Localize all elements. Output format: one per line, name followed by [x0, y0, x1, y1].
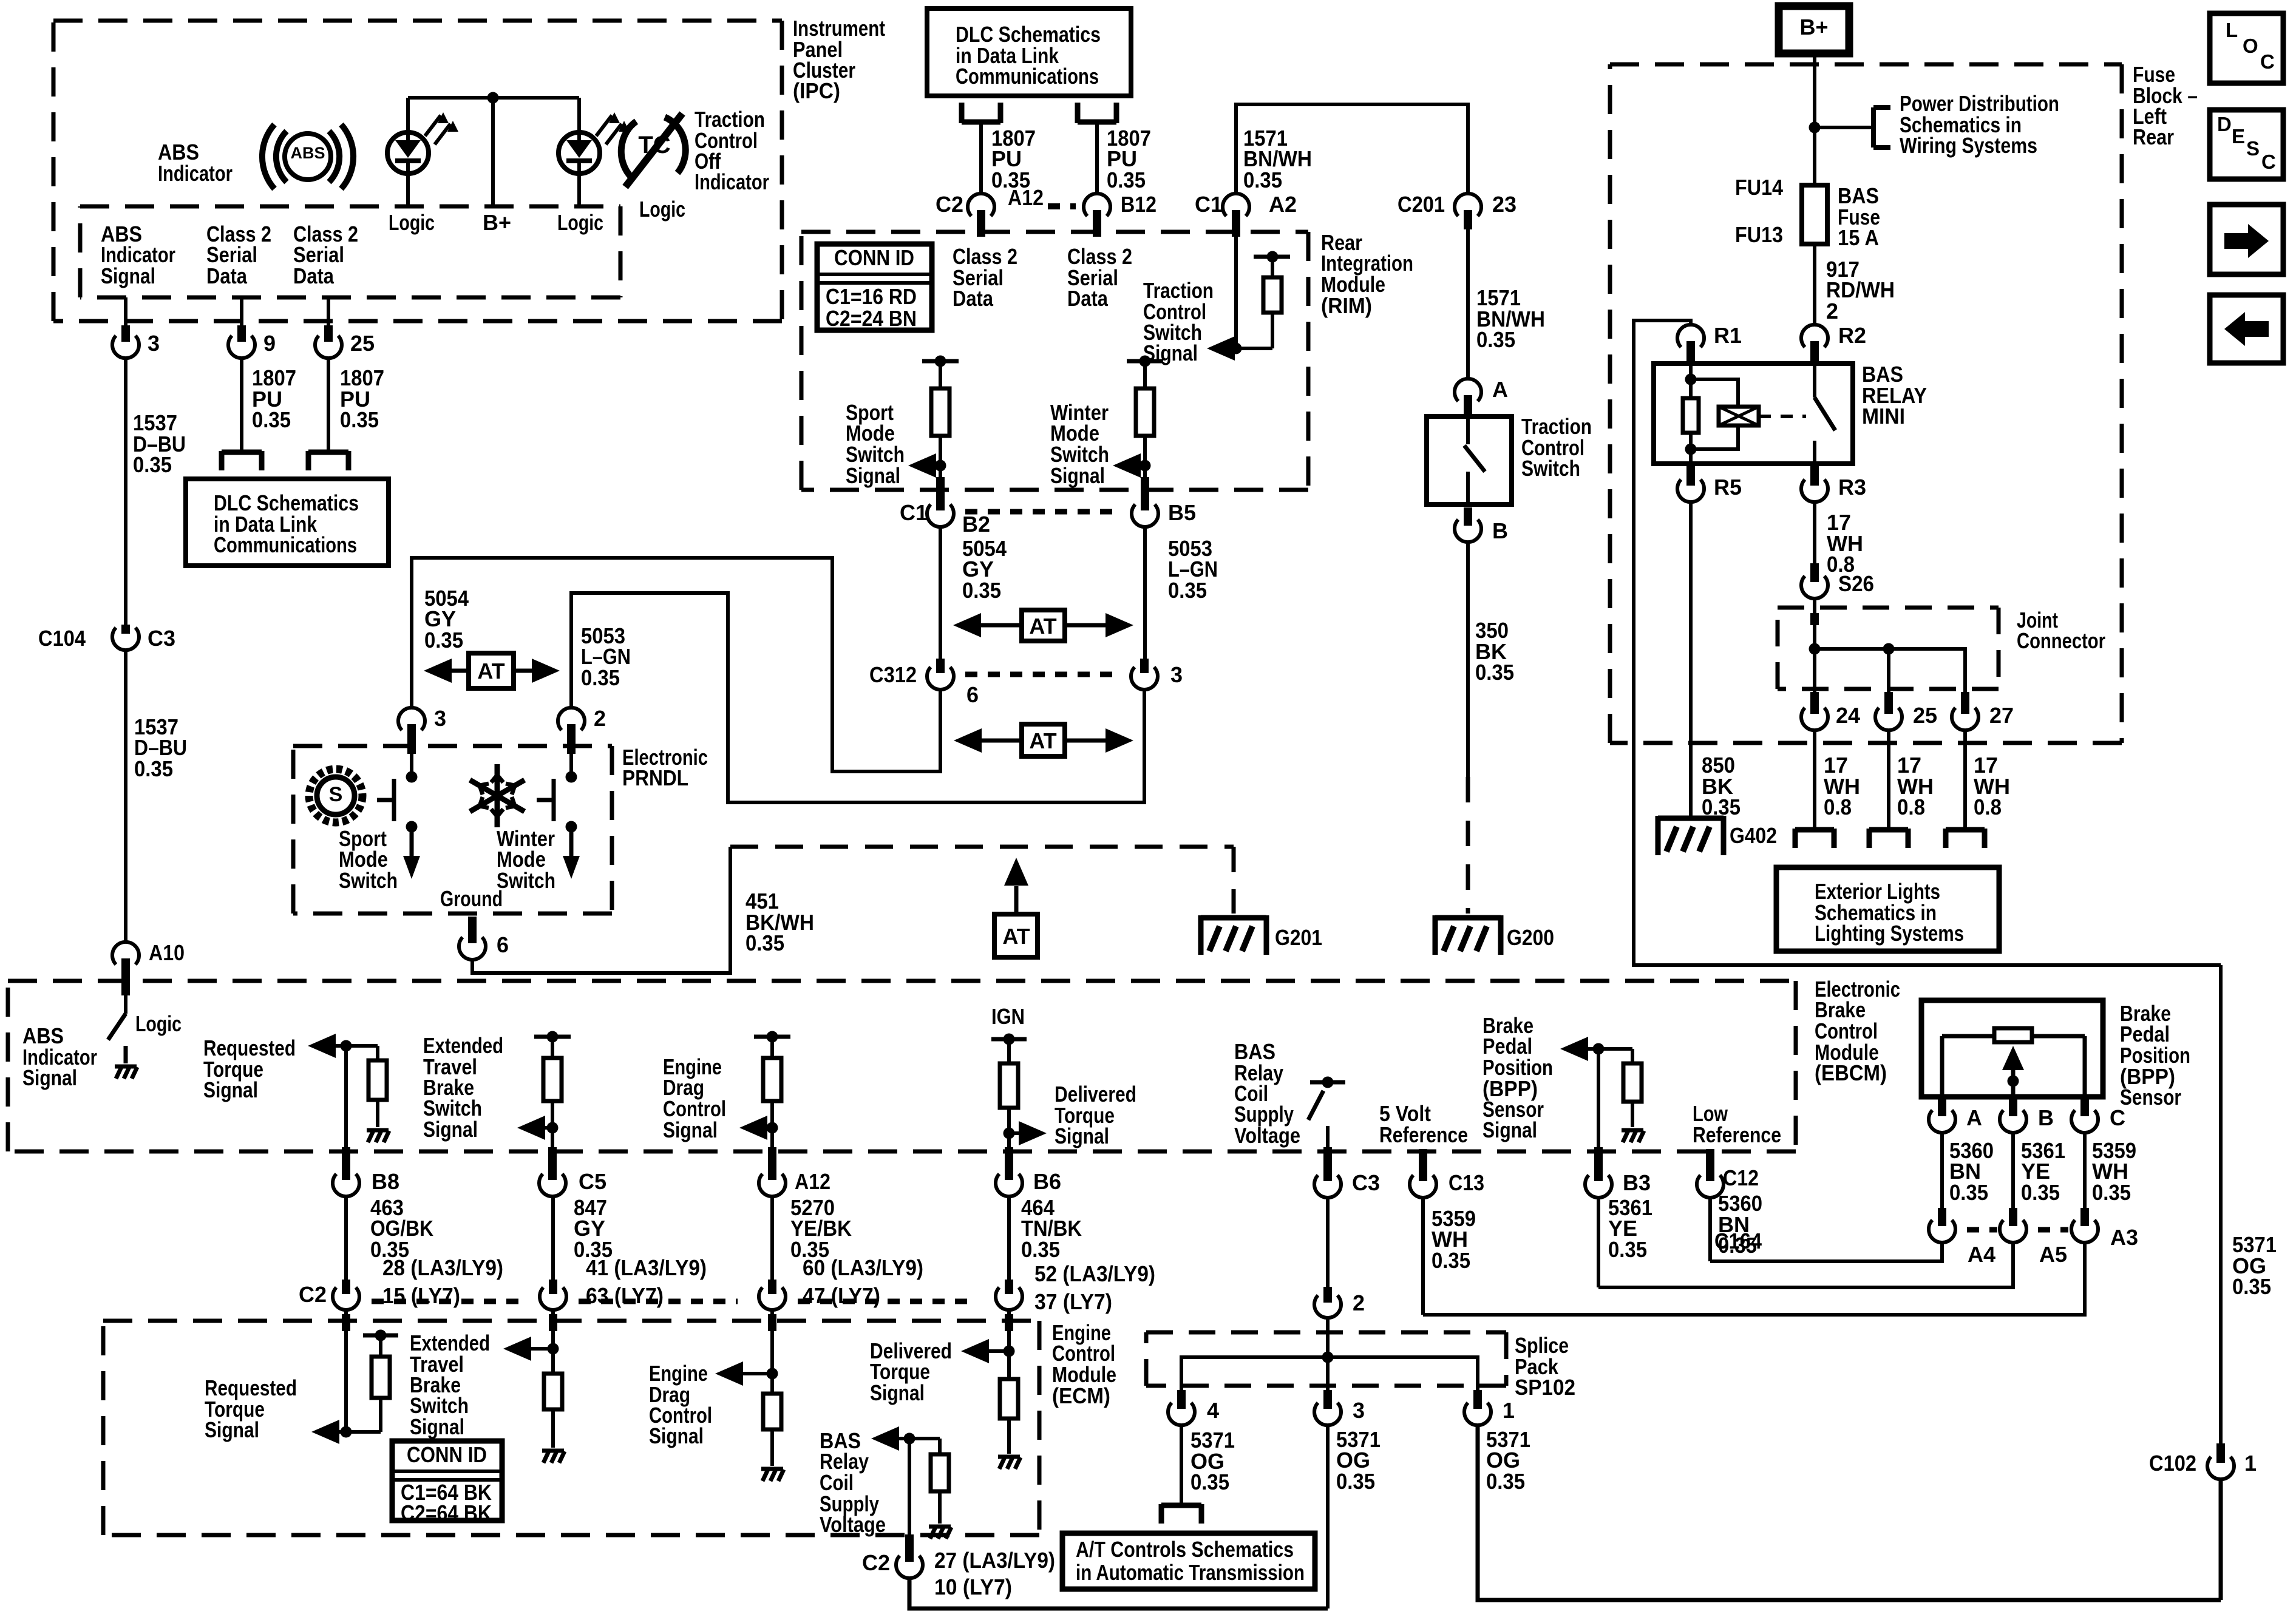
svg-text:G402: G402 [1730, 823, 1777, 848]
svg-text:37 (LY7): 37 (LY7) [1034, 1289, 1112, 1314]
wire A12 drop [768, 1128, 776, 1169]
svg-text:0.35: 0.35 [1021, 1237, 1060, 1262]
connector joint pin 25 [1875, 692, 1902, 730]
svg-text:in Automatic Transmission: in Automatic Transmission [1076, 1560, 1305, 1585]
resistor (winter pull-up) [1136, 361, 1154, 466]
svg-text:Rear: Rear [2133, 124, 2174, 149]
wire B8 drop [342, 1046, 350, 1169]
relay switch [1815, 364, 1835, 464]
svg-text:G201: G201 [1275, 925, 1322, 950]
svg-text:Logic: Logic [557, 210, 603, 235]
connector A3 [2071, 1208, 2098, 1242]
potentiometer wiper (BPP) [2002, 1046, 2024, 1097]
svg-text:0.35: 0.35 [1608, 1237, 1647, 1262]
label C2 [936, 192, 963, 217]
wire C13 down [1421, 1198, 1425, 1315]
wire from C2-27 to splice pin 3 [909, 1579, 1328, 1609]
label A12 (EBCM out) [795, 1169, 830, 1194]
pin label: 41 (LA3/LY9) [586, 1255, 707, 1280]
icon: ABS indicator symbol [262, 124, 353, 189]
resistor (req torque) [369, 1046, 387, 1127]
label B2 [962, 512, 990, 537]
svg-text:Signal: Signal [1050, 463, 1105, 488]
label: Delivered Torque Signal (EBCM) [1055, 1082, 1136, 1148]
svg-text:0.35: 0.35 [424, 628, 463, 653]
wire label: 5360 BN 0.35 (C12) [1718, 1191, 1762, 1258]
connector splice pin 3 [1314, 1390, 1341, 1425]
svg-text:0.8: 0.8 [1824, 795, 1852, 819]
svg-text:A12: A12 [1008, 185, 1044, 210]
svg-text:Signal: Signal [663, 1117, 718, 1142]
connector C104 pin C3 [112, 625, 139, 650]
wire label: 1571 BN/WH 0.35 (left) [1243, 126, 1312, 192]
svg-text:MINI: MINI [1862, 404, 1905, 429]
ground (delivered ECM) [998, 1457, 1021, 1469]
label: Requested Torque Signal (ECM) [205, 1375, 297, 1442]
svg-text:0.35: 0.35 [1107, 168, 1146, 192]
wire BPP A to A4 [1938, 1133, 1946, 1226]
label: Winter Mode Switch Signal [1050, 400, 1109, 488]
svg-text:FU13: FU13 [1735, 222, 1783, 247]
svg-text:R2: R2 [1838, 323, 1866, 348]
svg-text:O: O [2243, 35, 2258, 57]
wire stub pin3 into PRNDL [410, 754, 413, 777]
svg-text:AT: AT [1002, 924, 1030, 949]
stub below DLC box (left) [962, 103, 1000, 123]
svg-text:25: 25 [350, 331, 375, 356]
svg-text:Signal: Signal [203, 1077, 258, 1102]
off-page stub (A/T controls) [1161, 1504, 1201, 1524]
wire label: 1807 PU 0.35 (left) [252, 365, 296, 432]
wire coil to R5 [1686, 433, 1695, 478]
wire 5053 L-GN C312-3 to PRNDL pin 2 [571, 593, 1144, 802]
wire A4 to C12 [1710, 1243, 1942, 1261]
label: BAS Fuse 15 A [1838, 183, 1880, 250]
svg-text:Indicator: Indicator [695, 169, 769, 194]
reference box: A/T Controls Schematics in Automatic Transmission [1062, 1533, 1315, 1589]
svg-text:C12: C12 [1723, 1165, 1759, 1190]
wire 5270 YE/BK [768, 1197, 776, 1294]
connector B12 (RIM) [1084, 194, 1110, 237]
pin label: 63 (LY7) [586, 1283, 664, 1308]
junction dot (joint bus left) [1809, 643, 1821, 655]
wire pin1 to C102 riser [1478, 1426, 2221, 1600]
connector C312 pin 3 [1131, 659, 1158, 690]
connector row dashes C2-B12 [1048, 203, 1076, 209]
wire A10 into EBCM [124, 995, 127, 1014]
icon: winter mode (snowflake) [470, 764, 525, 827]
label C312 [869, 662, 917, 687]
arrow: delivered torque (ECM) [961, 1339, 1009, 1363]
label: 5 Volt Reference [1379, 1101, 1468, 1147]
component box: BAS RELAY MINI [1654, 364, 1853, 464]
svg-text:Signal: Signal [101, 263, 155, 288]
svg-text:A2: A2 [1269, 192, 1297, 217]
svg-text:Reference: Reference [1693, 1122, 1781, 1147]
svg-text:C102: C102 [2149, 1451, 2196, 1476]
wire 17 WH pin 24 down [1813, 731, 1816, 830]
label: Rear Integration Module (RIM) [1321, 230, 1413, 318]
wire label: 451 BK/WH 0.35 [746, 889, 814, 955]
svg-text:0.35: 0.35 [1336, 1469, 1375, 1494]
pin number 25 [350, 331, 375, 356]
pin label: Logic (left lamp) [389, 210, 435, 235]
wire 1807 PU to B12 [1095, 122, 1099, 194]
junction dot (delivered torque) [1004, 1128, 1015, 1139]
svg-text:C: C [2260, 50, 2275, 73]
svg-text:0.35: 0.35 [746, 931, 784, 955]
junction dot (BPP signal) [1593, 1043, 1605, 1055]
wire label: 5053 L-GN 0.35 (at B5) [1168, 536, 1218, 603]
nav box next arrow [2210, 205, 2283, 274]
pin label: 37 (LY7) [1034, 1289, 1112, 1314]
label 23 [1492, 192, 1517, 217]
wire label: 850 BK 0.35 [1702, 753, 1741, 819]
wire label: 1807 PU 0.35 (B12) [1107, 126, 1151, 192]
svg-text:0.35: 0.35 [1243, 168, 1282, 192]
wire 917 RD/WH [1813, 244, 1816, 324]
wire C12 down [1708, 1198, 1712, 1261]
label: Logic (EBCM) [135, 1011, 182, 1036]
label A12 [1008, 185, 1044, 210]
label: Brake Pedal Position (BPP) Sensor Signal [1483, 1013, 1553, 1142]
connector A12 (EBCM out) [759, 1147, 786, 1196]
svg-text:C2: C2 [862, 1550, 890, 1575]
label 6 (C312) [966, 682, 979, 707]
label 2 (PRNDL) [594, 706, 606, 731]
connector splice pin 1 [1464, 1390, 1491, 1425]
arrow: extended travel [517, 1116, 552, 1140]
wire label: 1537 D-BU 0.35 (lower) [134, 714, 187, 781]
reference box: Exterior Lights Schematics in Lighting Systems [1776, 867, 1999, 951]
wire A5 to B3 [1598, 1243, 2013, 1287]
pin label: 27 (LA3/LY9) [934, 1548, 1055, 1573]
pull-up T-bar (sport) [922, 356, 959, 367]
svg-text:Data: Data [206, 263, 248, 288]
svg-text:4: 4 [1207, 1398, 1219, 1423]
svg-text:0.35: 0.35 [1475, 660, 1514, 685]
svg-text:B12: B12 [1121, 192, 1156, 217]
svg-text:C2: C2 [299, 1282, 327, 1307]
svg-text:1: 1 [1503, 1398, 1515, 1423]
svg-text:9: 9 [263, 331, 276, 356]
svg-text:27 (LA3/LY9): 27 (LA3/LY9) [934, 1548, 1055, 1573]
arrow: BAS relay coil (ECM) [871, 1426, 940, 1451]
svg-text:C164: C164 [1714, 1229, 1762, 1253]
label: Extended Travel Brake Switch Signal (EBCM) [423, 1033, 503, 1142]
svg-text:60 (LA3/LY9): 60 (LA3/LY9) [803, 1255, 923, 1280]
ground (ext travel ECM) [542, 1451, 565, 1463]
nav box DESC [2210, 110, 2283, 179]
svg-text:B2: B2 [962, 512, 990, 537]
wire 17 WH pin 25 down [1887, 731, 1890, 830]
component box: Traction Control Switch [1427, 416, 1512, 504]
label: ABS Indicator Signal (EBCM) [22, 1023, 97, 1090]
label 6 (PRNDL ground) [497, 932, 509, 957]
ground G201 [1201, 915, 1266, 955]
resistor (engine drag ECM) [763, 1394, 781, 1466]
svg-text:C3: C3 [148, 626, 175, 651]
arrow: Requested Torque Signal [308, 1034, 378, 1058]
label B (BPP) [2038, 1105, 2054, 1130]
connector B6 [996, 1147, 1022, 1196]
wire label: 5361 YE 0.35 (B3) [1608, 1195, 1652, 1262]
wire B3 drop [1594, 1049, 1603, 1169]
svg-text:C1: C1 [900, 500, 928, 525]
connector B8 [333, 1147, 359, 1196]
pin label: ABS Indicator Signal [101, 222, 175, 288]
svg-text:Data: Data [293, 263, 335, 288]
ground (BPP signal) [1622, 1130, 1644, 1142]
svg-text:C1: C1 [1195, 192, 1223, 217]
wire label: 5054 GY 0.35 (at B2) [962, 536, 1007, 603]
label C2 (ECM row) [299, 1282, 327, 1307]
label A10 [149, 940, 185, 965]
svg-text:0.35: 0.35 [252, 407, 291, 432]
connector PRNDL pin 2 [558, 708, 585, 754]
label A4 [1968, 1242, 1995, 1267]
power feed box B+ [1779, 6, 1849, 53]
wire stub pin 25 [327, 297, 330, 328]
junction dot (winter) [1140, 460, 1151, 472]
svg-text:SP102: SP102 [1515, 1375, 1575, 1400]
svg-text:A12: A12 [795, 1169, 830, 1194]
svg-text:B5: B5 [1168, 500, 1196, 525]
module box: Engine Control Module (ECM) [103, 1321, 1039, 1535]
connector row conn (A12) [759, 1280, 786, 1310]
label R1 [1714, 323, 1742, 348]
svg-text:C1=16 RD: C1=16 RD [826, 284, 917, 309]
svg-text:FU14: FU14 [1735, 175, 1783, 200]
wire B+ into fuse block [1813, 53, 1816, 185]
label B3 [1623, 1170, 1651, 1195]
label: BAS Relay Coil Supply Voltage (ECM) [820, 1428, 886, 1537]
arrow: Sport Mode Switch Signal [908, 453, 940, 478]
resistor (RIM TCS pull-up) [1263, 257, 1282, 348]
label C3 [148, 626, 175, 651]
potentiometer leads (BPP) [1942, 1036, 2085, 1097]
svg-text:2: 2 [1826, 299, 1838, 324]
svg-text:Signal: Signal [205, 1417, 259, 1442]
nav box prev arrow [2210, 295, 2283, 363]
wire into ECM (req torque) [342, 1310, 350, 1432]
wire 847 GY [549, 1197, 557, 1294]
module box: Joint Connector [1778, 608, 1999, 689]
switch contacts (TC switch) [1464, 419, 1485, 504]
junction dot (splice bus) [1322, 1352, 1334, 1363]
wire label: 350 BK 0.35 [1475, 618, 1514, 685]
svg-text:Signal: Signal [1483, 1117, 1537, 1142]
resistor (IGN) [1000, 1039, 1018, 1133]
connector splice pin 2 [1314, 1287, 1341, 1318]
svg-text:28 (LA3/LY9): 28 (LA3/LY9) [382, 1255, 503, 1280]
resistor (BPP signal) [1623, 1049, 1642, 1127]
label B12 [1121, 192, 1156, 217]
ground (engine drag ECM) [761, 1469, 784, 1481]
reference box: DLC Schematics in Data Link Communications (left) [186, 479, 389, 566]
label: Extended Travel Brake Switch Signal (ECM) [410, 1331, 490, 1439]
label: Instrument Panel Cluster (IPC) [793, 16, 885, 103]
pin label: 52 (LA3/LY9) [1034, 1261, 1155, 1286]
AT arrows (PRNDL) [424, 659, 560, 683]
svg-text:0.35: 0.35 [581, 665, 620, 690]
module box: Instrument Panel Cluster (IPC) [53, 21, 782, 321]
resistor (ext travel) [543, 1037, 562, 1128]
connector pin 3 of IPC [112, 325, 139, 358]
label S26 [1838, 571, 1874, 596]
ECM connector row dashes 2 [579, 1299, 738, 1304]
svg-text:Connector: Connector [2017, 628, 2105, 653]
svg-text:15 (LY7): 15 (LY7) [382, 1283, 460, 1308]
junction dot (B+) [1809, 122, 1821, 134]
svg-text:Sensor: Sensor [2120, 1085, 2181, 1110]
wire 1537 D-BU (upper) [124, 359, 127, 625]
svg-text:B3: B3 [1623, 1170, 1651, 1195]
label: Traction Control Off Indicator [695, 107, 769, 194]
svg-text:Ground: Ground [440, 886, 503, 911]
resistor (ext travel ECM) [544, 1374, 562, 1448]
svg-text:0.35: 0.35 [962, 578, 1001, 603]
connector C1 pin B2 (RIM) [927, 498, 954, 527]
pin label: Logic (right lamp) [557, 210, 603, 235]
wire 17 WH pin 27 down [1963, 731, 1967, 830]
wire label: 5371 OG 0.35 (pin 4) [1190, 1428, 1235, 1494]
wire 1571 to switch A [1466, 229, 1470, 378]
wire 1807 PU (pin 25 drop) [327, 359, 330, 451]
label 3 (C312) [1170, 662, 1183, 687]
sport mode switch arrow [403, 827, 420, 879]
svg-text:Data: Data [953, 286, 994, 311]
icon: Traction Control Off symbol [621, 114, 685, 187]
connector A (BPP) [1929, 1097, 1955, 1133]
svg-text:0.35: 0.35 [1168, 578, 1207, 603]
resistor (BAS relay ECM) [931, 1439, 949, 1524]
svg-text:B: B [2038, 1105, 2054, 1130]
joint connector bus [1815, 649, 1965, 692]
AT translation box (lower) [1022, 724, 1065, 756]
svg-text:0.8: 0.8 [1897, 795, 1925, 819]
IGN supply T-bar [991, 1034, 1027, 1045]
connector B3 [1585, 1147, 1612, 1198]
connector C2 row (B8) [333, 1280, 359, 1310]
label C164 (overlap) [1714, 1229, 1762, 1253]
supply T-bar (BAS relay coil) [1310, 1077, 1345, 1088]
wire label: 5053 L-GN 0.35 (at PRNDL) [581, 623, 631, 690]
label: Sport Mode Switch Signal [846, 400, 905, 488]
svg-text:C2=24 BN: C2=24 BN [826, 306, 917, 331]
wire BPP B to A5 [2009, 1133, 2017, 1226]
connector R3 [1801, 464, 1828, 502]
label: Splice Pack SP102 [1515, 1333, 1575, 1400]
ground (BAS relay ECM) [929, 1527, 951, 1539]
wire label: 5361 YE 0.35 (BPP B) [2021, 1138, 2065, 1205]
label 3 (splice) [1353, 1398, 1365, 1423]
svg-text:A10: A10 [149, 940, 185, 965]
pin number 9 [263, 331, 276, 356]
wire into ECM (ext travel) [549, 1310, 557, 1374]
arrow: engine drag [739, 1116, 772, 1140]
connector pin 9 of IPC [228, 325, 255, 358]
wire 1537 D-BU (lower) [124, 651, 127, 941]
svg-text:Voltage: Voltage [1234, 1123, 1300, 1148]
wire switch to R3 [1810, 464, 1819, 480]
pin label: 10 (LY7) [934, 1575, 1012, 1599]
ECM connector row dashes 3 [798, 1299, 974, 1304]
wire label: 464 TN/BK 0.35 [1021, 1195, 1082, 1262]
relay coil element [1691, 379, 1759, 449]
fuse FU14/FU13 (BAS Fuse 15A) [1802, 185, 1827, 244]
svg-text:0.35: 0.35 [2092, 1180, 2131, 1205]
CONN ID table (RIM) [817, 244, 932, 331]
connector C1 pin A2 [1223, 194, 1249, 237]
connector B (TC switch) [1455, 507, 1481, 542]
svg-text:Switch: Switch [1521, 456, 1580, 481]
svg-text:Signal: Signal [423, 1117, 478, 1142]
label: Delivered Torque Signal (ECM) [870, 1338, 952, 1405]
pin label: Logic (TC indicator) [639, 197, 685, 222]
pull-up T-bar (winter) [1127, 356, 1163, 367]
label: Traction Control Switch Signal [1143, 278, 1214, 365]
label B5 [1168, 500, 1196, 525]
wire 451 BK/WH dashed run [730, 845, 1234, 849]
junction dot (delivered ECM) [1004, 1346, 1015, 1357]
pin label: Class 2 Serial Data (A12) [953, 244, 1017, 311]
pin label: 28 (LA3/LY9) [382, 1255, 503, 1280]
wire 5054 GY B2 to C312-6 [939, 527, 942, 662]
svg-text:C5: C5 [579, 1169, 606, 1194]
svg-text:23: 23 [1492, 192, 1517, 217]
label C13 [1449, 1170, 1484, 1195]
AT translation box (to EBCM) [994, 914, 1038, 957]
connector C2 pin 27 (ECM) [896, 1549, 923, 1578]
connector row dashes B2-B5 [965, 509, 1120, 515]
label FU14 [1735, 175, 1783, 200]
svg-text:3: 3 [148, 331, 160, 356]
connector splice pin 4 [1168, 1390, 1195, 1425]
svg-text:Logic: Logic [135, 1011, 182, 1036]
wire C5 drop [548, 1128, 557, 1169]
pin label: 15 (LY7) [382, 1283, 460, 1308]
svg-text:Logic: Logic [639, 197, 685, 222]
svg-text:1: 1 [2244, 1451, 2257, 1476]
svg-text:Signal: Signal [846, 463, 900, 488]
label: Engine Drag Control Signal (EBCM) [663, 1054, 726, 1142]
svg-text:15 A: 15 A [1838, 225, 1879, 250]
label: Fuse Block - Left Rear [2133, 62, 2198, 149]
svg-text:(IPC): (IPC) [793, 78, 840, 103]
wire A3 to C13 [1423, 1243, 2085, 1315]
svg-text:Reference: Reference [1379, 1122, 1468, 1147]
label A (BPP) [1966, 1105, 1982, 1130]
label: Electronic PRNDL [622, 745, 708, 790]
connector C12 [1697, 1149, 1724, 1198]
svg-text:Indicator: Indicator [158, 161, 233, 186]
AT translation box (upper) [1022, 610, 1065, 641]
wire stub pin 9 [240, 297, 243, 328]
pin label: Class 2 Serial Data (pin 25) [293, 222, 358, 288]
pin label: Class 2 Serial Data (pin 9) [206, 222, 271, 288]
connector R5 [1677, 461, 1704, 502]
resistor (delivered ECM) [1000, 1379, 1018, 1454]
wire 1807 PU (pin 9 drop) [240, 359, 243, 451]
svg-text:52 (LA3/LY9): 52 (LA3/LY9) [1034, 1261, 1155, 1286]
svg-text:Switch: Switch [497, 868, 555, 893]
svg-text:A/T Controls Schematics: A/T Controls Schematics [1076, 1537, 1294, 1562]
label: Power Distribution Schematics in Wiring Systems [1900, 91, 2059, 158]
pin label: Class 2 Serial Data (B12) [1067, 244, 1132, 311]
svg-text:A4: A4 [1968, 1242, 1995, 1267]
connector C13 [1410, 1149, 1436, 1198]
